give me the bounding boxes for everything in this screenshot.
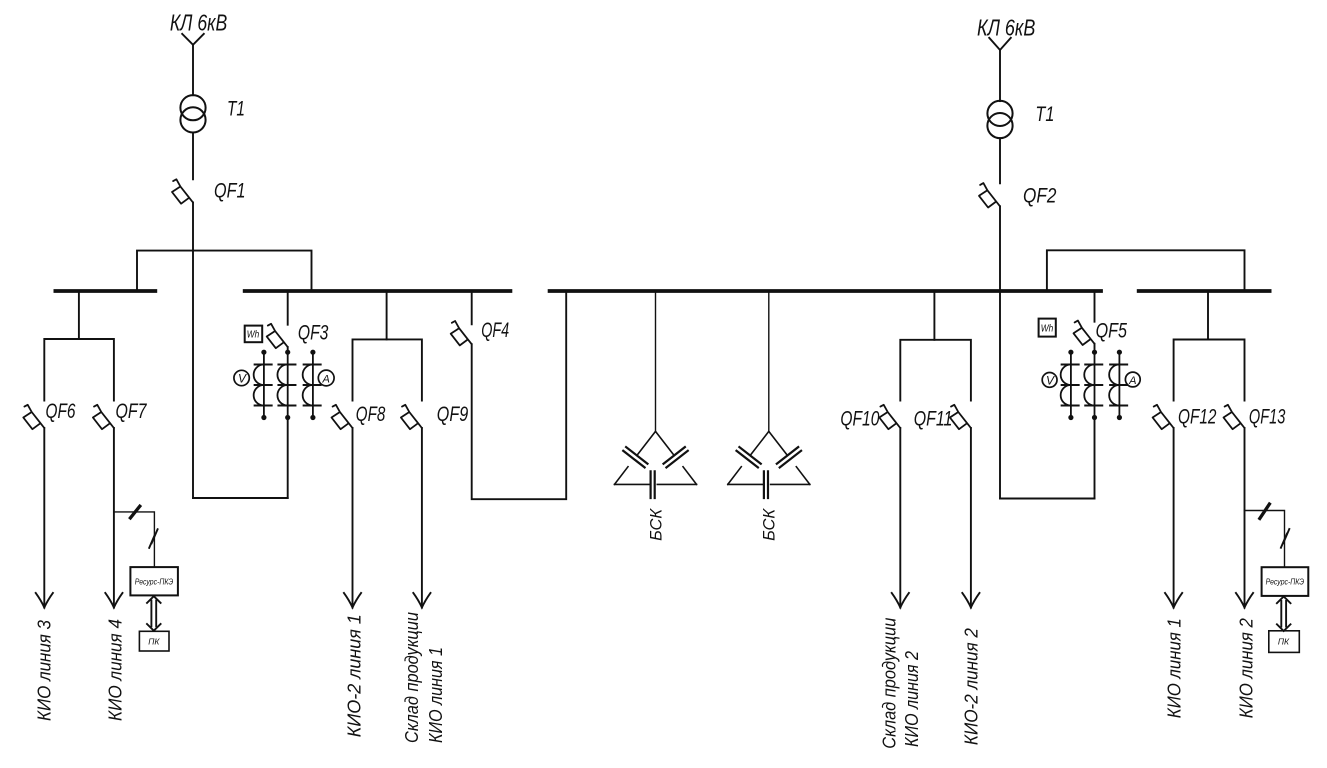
svg-text:V: V — [238, 372, 247, 386]
wire — [193, 497, 288, 499]
wire — [1094, 418, 1096, 499]
svg-text:T1: T1 — [1035, 103, 1054, 126]
wire bracket QF6 QF7 — [44, 339, 114, 401]
svg-text:КИО линия 2: КИО линия 2 — [1236, 618, 1256, 718]
wire bracket QF8 QF9 — [353, 339, 422, 400]
cable head fork left — [182, 34, 204, 45]
meter A left — [318, 370, 334, 386]
label feeder Sklad produkcii line 2 — [880, 618, 922, 749]
wire bus1 stem — [78, 291, 80, 339]
wire — [999, 50, 1001, 101]
breaker QF1 — [172, 179, 193, 203]
svg-text:БСК: БСК — [760, 508, 779, 541]
slash mark — [1260, 504, 1270, 518]
svg-text:Wh: Wh — [1041, 323, 1054, 334]
device Resurs-PKE right — [1262, 567, 1309, 596]
wire QF4 branch — [471, 291, 473, 324]
svg-text:КИО линия 3: КИО линия 3 — [34, 620, 54, 721]
svg-text:БСК: БСК — [646, 508, 665, 541]
arrow feeder QF13 — [1236, 593, 1253, 608]
svg-text:КИО-2 линия 1: КИО-2 линия 1 — [345, 614, 365, 737]
svg-text:QF9: QF9 — [437, 403, 469, 426]
wire — [999, 138, 1001, 183]
arrow feeder QF6 — [36, 593, 53, 608]
svg-text:Ресурс-ПКЭ: Ресурс-ПКЭ — [1266, 577, 1305, 587]
svg-text:QF10: QF10 — [840, 407, 879, 430]
svg-text:A: A — [322, 374, 330, 386]
busbar section 1 — [55, 289, 155, 293]
breaker QF5 — [1074, 321, 1095, 345]
arrow feeder QF12 — [1165, 593, 1182, 608]
svg-text:QF7: QF7 — [116, 400, 148, 423]
svg-text:T1: T1 — [227, 98, 245, 121]
CT phase c left — [303, 350, 321, 421]
breaker QF13 — [1224, 405, 1245, 429]
busbar section 3 — [550, 289, 1101, 293]
capacitor bank BSK2 — [728, 431, 810, 498]
breaker QF9 — [401, 405, 422, 429]
svg-text:QF13: QF13 — [1249, 406, 1286, 429]
cable head fork right — [989, 38, 1011, 50]
svg-text:QF4: QF4 — [481, 319, 509, 342]
breaker QF10 — [879, 405, 900, 429]
wire — [999, 206, 1001, 498]
meter V right — [1042, 373, 1057, 388]
transformer T1 left — [180, 95, 205, 132]
svg-text:QF2: QF2 — [1023, 185, 1057, 208]
svg-text:QF8: QF8 — [356, 403, 386, 426]
wire QF3 branch — [287, 291, 289, 325]
svg-text:Wh: Wh — [247, 330, 260, 341]
breaker QF11 — [950, 405, 971, 429]
wire — [43, 428, 45, 608]
wire bracket QF10 QF11 — [900, 340, 971, 401]
wire — [472, 291, 567, 499]
wire — [970, 428, 972, 608]
wire — [899, 428, 901, 608]
svg-text:QF5: QF5 — [1096, 319, 1128, 342]
svg-text:ПК: ПК — [148, 636, 160, 646]
wire — [1173, 428, 1175, 608]
svg-text:QF6: QF6 — [46, 400, 76, 423]
wire bus3 stem QF10 QF11 — [933, 291, 935, 340]
svg-text:КЛ 6кВ: КЛ 6кВ — [977, 14, 1035, 40]
svg-text:КИО линия 1: КИО линия 1 — [426, 647, 446, 743]
wire — [113, 428, 115, 608]
wire meter tap QF7 — [114, 512, 154, 567]
svg-text:ПК: ПК — [1278, 637, 1290, 647]
double slash mark — [1281, 529, 1289, 548]
wire — [1094, 344, 1096, 352]
breaker QF3 — [267, 324, 288, 348]
svg-text:V: V — [1046, 373, 1055, 387]
double arrow left — [147, 596, 161, 631]
arrow feeder QF10 — [892, 593, 909, 608]
arrow feeder QF7 — [105, 593, 122, 608]
label feeder Sklad produkcii line 1 — [402, 612, 446, 743]
slash mark — [130, 506, 139, 518]
breaker QF6 — [23, 405, 44, 429]
wire bus tie right — [1047, 250, 1245, 289]
double slash mark — [149, 529, 157, 548]
arrow feeder QF8 — [344, 593, 361, 608]
meter Wh left — [245, 326, 263, 343]
wire — [192, 133, 194, 180]
wire BSK1 feed — [655, 291, 657, 431]
wire bracket QF12 QF13 — [1174, 340, 1245, 401]
svg-text:A: A — [1128, 375, 1136, 387]
svg-text:КИО линия 2: КИО линия 2 — [902, 651, 922, 747]
transformer T1 right — [987, 101, 1012, 138]
svg-text:Склад продукции: Склад продукции — [880, 618, 900, 749]
svg-text:QF1: QF1 — [214, 179, 246, 202]
breaker QF8 — [332, 405, 353, 429]
wire — [287, 347, 289, 353]
arrow feeder QF11 — [962, 593, 979, 608]
breaker QF4 — [451, 321, 472, 345]
wire bus tie left — [137, 251, 312, 290]
svg-text:КИО линия 1: КИО линия 1 — [1165, 618, 1185, 718]
capacitor bank BSK1 — [615, 431, 697, 498]
wire — [287, 418, 289, 499]
wire — [421, 428, 423, 608]
busbar section 4 — [1139, 289, 1270, 293]
svg-text:КИО-2 линия 2: КИО-2 линия 2 — [961, 628, 981, 745]
wire bus4 stem QF12 QF13 — [1207, 291, 1209, 340]
CT phase b right — [1084, 350, 1102, 421]
device Resurs-PKE left — [130, 567, 178, 595]
busbar section 2 — [245, 289, 511, 293]
CT phase a right — [1061, 350, 1079, 421]
svg-text:Склад продукции: Склад продукции — [402, 612, 422, 743]
wire meter tap QF13 — [1245, 511, 1285, 568]
svg-text:QF11: QF11 — [914, 407, 953, 430]
svg-text:QF3: QF3 — [298, 321, 329, 344]
breaker QF7 — [93, 405, 114, 429]
wire BSK2 feed — [768, 291, 770, 431]
CT phase a left — [254, 350, 272, 421]
meter A right — [1125, 372, 1140, 387]
arrow feeder QF9 — [413, 593, 430, 608]
wire — [1000, 498, 1095, 500]
svg-text:Ресурс-ПКЭ: Ресурс-ПКЭ — [135, 577, 174, 587]
svg-text:КЛ 6кВ: КЛ 6кВ — [170, 9, 227, 35]
breaker QF12 — [1153, 405, 1174, 429]
meter Wh right — [1039, 319, 1056, 337]
device PK left — [139, 631, 169, 651]
wire — [192, 203, 194, 499]
wire — [192, 45, 194, 95]
wire bus2 stem QF8 QF9 — [386, 291, 388, 339]
wire — [352, 428, 354, 608]
breaker QF2 — [979, 183, 1000, 207]
wire QF5 branch — [1094, 291, 1096, 322]
CT phase c right — [1109, 350, 1127, 421]
device PK right — [1269, 631, 1300, 653]
CT phase b left — [277, 350, 295, 421]
wire — [1244, 428, 1246, 608]
svg-text:QF12: QF12 — [1178, 406, 1217, 429]
svg-text:КИО линия 4: КИО линия 4 — [105, 619, 125, 721]
meter V left — [234, 370, 249, 385]
double arrow right — [1277, 597, 1291, 632]
